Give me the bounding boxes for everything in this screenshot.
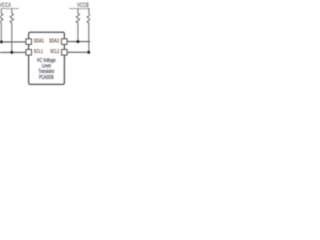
U1 PCA9306 translator box	[29, 32, 65, 84]
wire SCL1	[0, 51, 26, 53]
wire VCCA rail	[1, 8, 19, 10]
wire VCCB rail	[69, 8, 90, 10]
svg-text:SDA1: SDA1	[34, 39, 44, 45]
junction dot R2/SCL1	[10, 51, 13, 54]
junction dot R4/SCL2	[87, 51, 90, 54]
wire SDA1	[0, 41, 26, 43]
wire SCL2	[67, 51, 90, 53]
pin SCL1 terminal square	[26, 50, 32, 56]
resistor R3 (VCCB pull-up on SDA2)	[76, 9, 79, 42]
svg-text:SCL1: SCL1	[34, 49, 43, 55]
resistor R2 (VCCA pull-up on SCL1)	[10, 9, 13, 53]
pin SDA2 terminal square	[62, 39, 68, 45]
pin SCL2 terminal square	[62, 50, 68, 56]
svg-text:SCL2: SCL2	[50, 49, 59, 55]
resistor R4 (VCCB pull-up on SCL2)	[87, 9, 90, 53]
pin SDA1 terminal square	[26, 39, 32, 45]
resistor R1 (VCCA pull-up on SDA1)	[0, 9, 3, 42]
junction dot R3/SDA2	[76, 40, 79, 43]
svg-text:PCA9306: PCA9306	[39, 75, 54, 81]
svg-text:SDA2: SDA2	[49, 39, 59, 45]
junction dot R1/SDA1	[0, 40, 3, 43]
wire SDA2	[67, 41, 90, 43]
